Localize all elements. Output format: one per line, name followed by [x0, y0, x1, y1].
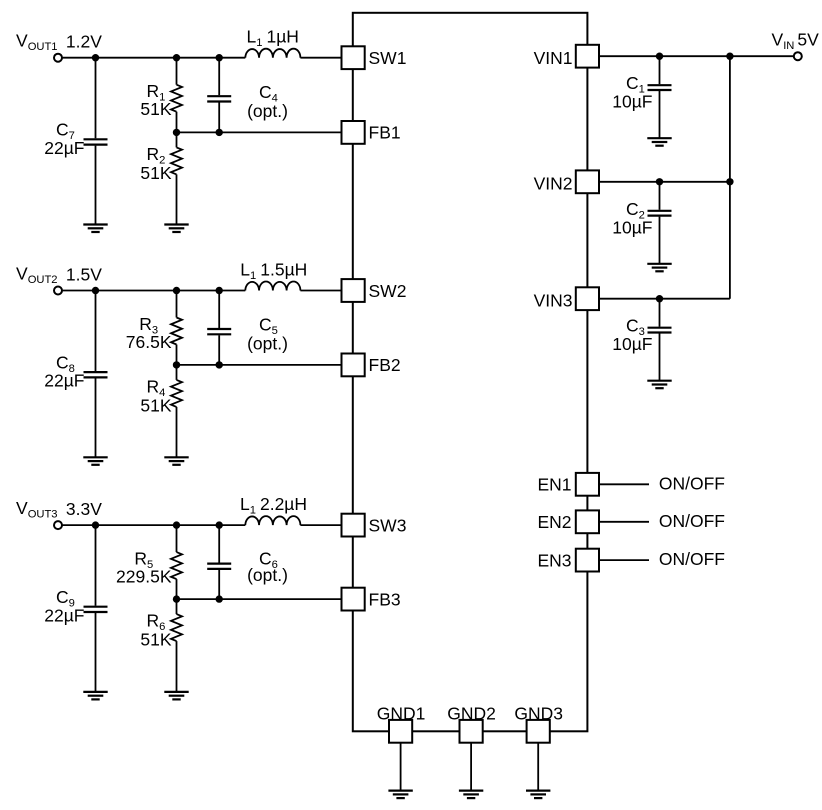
svg-text:229.5K: 229.5K	[116, 566, 172, 586]
svg-text:51K: 51K	[140, 630, 171, 650]
svg-text:VIN5V: VIN5V	[772, 29, 820, 52]
svg-text:22µF: 22µF	[44, 605, 84, 625]
svg-text:GND3: GND3	[514, 703, 563, 723]
svg-text:SW3: SW3	[369, 515, 407, 535]
svg-text:1.2V: 1.2V	[66, 32, 102, 52]
svg-text:L11µH: L11µH	[247, 27, 299, 50]
svg-text:FB2: FB2	[369, 355, 401, 375]
svg-text:VOUT1: VOUT1	[16, 31, 58, 54]
svg-text:VIN3: VIN3	[534, 291, 573, 311]
svg-text:SW2: SW2	[369, 281, 407, 301]
svg-text:GND1: GND1	[377, 703, 426, 723]
svg-text:76.5K: 76.5K	[126, 332, 172, 352]
svg-text:22µF: 22µF	[44, 371, 84, 391]
svg-text:(opt.): (opt.)	[247, 101, 288, 121]
svg-text:L11.5µH: L11.5µH	[240, 260, 307, 283]
svg-text:VOUT3: VOUT3	[16, 498, 58, 521]
svg-text:(opt.): (opt.)	[247, 565, 288, 585]
svg-text:22µF: 22µF	[44, 138, 84, 158]
svg-text:3.3V: 3.3V	[66, 499, 102, 519]
svg-text:10µF: 10µF	[612, 217, 652, 237]
svg-text:FB3: FB3	[369, 589, 401, 609]
svg-text:ON/OFF: ON/OFF	[659, 549, 725, 569]
svg-text:EN3: EN3	[537, 550, 571, 570]
svg-text:SW1: SW1	[369, 48, 407, 68]
svg-text:VIN2: VIN2	[534, 174, 573, 194]
svg-text:EN2: EN2	[537, 512, 571, 532]
svg-text:VOUT2: VOUT2	[16, 264, 58, 287]
svg-text:10µF: 10µF	[612, 334, 652, 354]
svg-text:51K: 51K	[140, 99, 171, 119]
svg-text:L12.2µH: L12.2µH	[240, 494, 307, 516]
svg-text:1.5V: 1.5V	[66, 265, 102, 285]
svg-text:ON/OFF: ON/OFF	[659, 511, 725, 531]
svg-text:GND2: GND2	[447, 703, 496, 723]
svg-text:VIN1: VIN1	[534, 48, 573, 68]
svg-text:51K: 51K	[140, 163, 171, 183]
svg-text:FB1: FB1	[369, 123, 401, 143]
svg-text:(opt.): (opt.)	[247, 334, 288, 354]
svg-text:ON/OFF: ON/OFF	[659, 473, 725, 493]
svg-text:EN1: EN1	[537, 475, 571, 495]
svg-text:51K: 51K	[140, 395, 171, 415]
svg-text:10µF: 10µF	[612, 92, 652, 112]
